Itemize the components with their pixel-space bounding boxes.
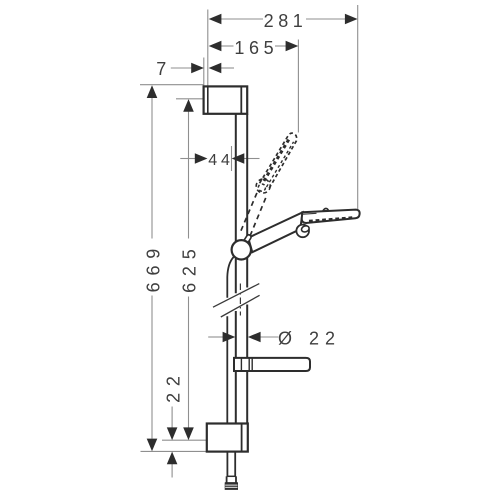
svg-text:Ø 22: Ø 22 [278, 329, 341, 349]
svg-text:7: 7 [156, 59, 166, 79]
svg-text:44: 44 [208, 152, 233, 169]
svg-text:281: 281 [264, 11, 308, 31]
svg-text:669: 669 [143, 242, 163, 292]
svg-text:165: 165 [234, 38, 278, 58]
svg-text:22: 22 [163, 369, 183, 403]
svg-text:625: 625 [180, 242, 200, 292]
